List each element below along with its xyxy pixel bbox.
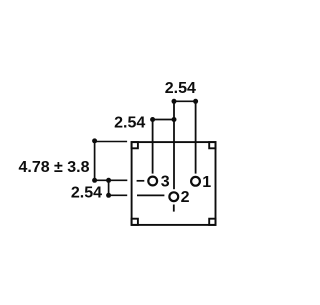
- svg-text:2.54: 2.54: [165, 80, 196, 97]
- corner index mark top-right: [209, 142, 215, 148]
- pin 3 pad circle: [148, 177, 157, 186]
- dimension line 2.54 (pin3 to pin2): [150, 117, 176, 122]
- pin 2 row extension line (left of body): [109, 194, 128, 196]
- pin 1 label: [202, 174, 211, 191]
- dimension line 2.54 vertical (pin3 row to pin2 row): [106, 178, 111, 198]
- pin 2 label: [181, 189, 190, 206]
- body-top extension line: [95, 141, 128, 143]
- svg-text:3: 3: [161, 174, 170, 191]
- svg-text:2: 2: [181, 189, 190, 206]
- pin 2 center line dash (inside body): [137, 194, 164, 196]
- svg-text:2.54: 2.54: [114, 115, 145, 132]
- dimension text 2.54 middle: [114, 115, 145, 132]
- pin 3 center line dash (inside body): [137, 180, 145, 182]
- pin 2 extension/center line: [173, 101, 175, 189]
- corner index mark bottom-left: [132, 219, 138, 225]
- pin 3 extension/center line: [152, 120, 154, 174]
- corner index mark bottom-right: [209, 219, 215, 225]
- corner index mark top-left: [132, 142, 138, 148]
- pin 2 center line lower dash: [173, 205, 175, 212]
- pin 1 pad circle: [191, 177, 200, 186]
- pin 1 extension/center line: [195, 101, 197, 173]
- dimension text 2.54 bottom-left: [71, 184, 102, 201]
- dimension text 2.54 top: [165, 80, 196, 97]
- pin 3 label: [161, 174, 170, 191]
- dimension line 4.78 vertical (body top to pin row): [92, 138, 97, 182]
- pin 3 row extension line (left of body): [95, 179, 128, 181]
- dimension line 2.54 (pin2 to pin1): [172, 99, 199, 104]
- package body outline: [132, 142, 216, 225]
- svg-text:2.54: 2.54: [71, 184, 102, 201]
- dimension text 4.78 plus-minus 3.8: [18, 159, 89, 176]
- pin 2 pad circle: [169, 192, 178, 201]
- svg-text:1: 1: [202, 174, 211, 191]
- svg-text:4.78 ± 3.8: 4.78 ± 3.8: [18, 159, 89, 176]
